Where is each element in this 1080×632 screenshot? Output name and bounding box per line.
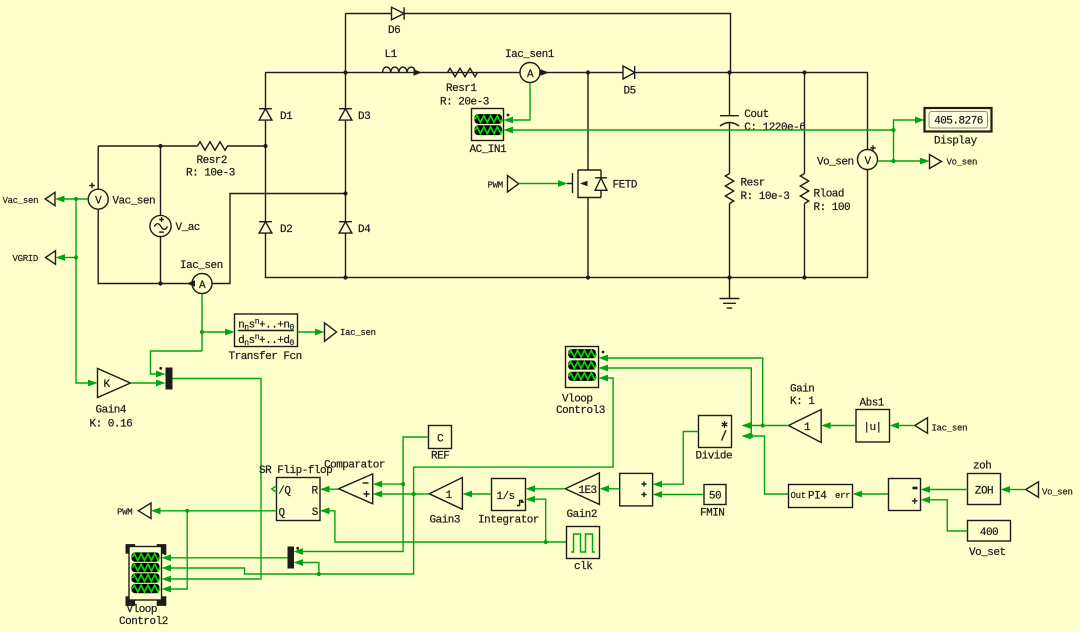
transfer function block Transfer Fcn — [229, 314, 302, 363]
svg-text:1E3: 1E3 — [578, 485, 596, 497]
node PWM tap — [185, 509, 189, 513]
diode D6 — [388, 7, 404, 37]
svg-text:V_ac: V_ac — [176, 222, 200, 234]
svg-text:R: 100: R: 100 — [814, 202, 851, 214]
svg-text:PI4: PI4 — [808, 490, 827, 502]
node dots Vo net — [891, 128, 895, 163]
wire green Vo branch to display — [894, 120, 916, 130]
wire green Gain4 to mux — [131, 382, 157, 384]
diode D4 — [339, 222, 371, 236]
ground — [720, 278, 740, 309]
svg-text:V: V — [95, 196, 102, 208]
svg-text:Iac_sen: Iac_sen — [340, 328, 376, 338]
wire green comparator out to R — [330, 488, 339, 490]
multiplexer bar mux1 — [159, 367, 172, 390]
integrator block 1/s — [478, 479, 539, 527]
gain Gain3 — [429, 478, 462, 527]
subtract block — [889, 479, 921, 511]
clock block clk — [567, 527, 600, 573]
svg-text:|u|: |u| — [863, 422, 881, 434]
wire green voltmeter Vo_sen to port — [878, 160, 921, 162]
node Gain out tap — [761, 423, 765, 427]
svg-text:Gain2: Gain2 — [567, 509, 598, 521]
diode D3 — [339, 109, 370, 123]
wire green tap to scope3 input2 — [608, 368, 751, 436]
wire green Abs1 to Gain — [831, 425, 856, 427]
svg-text:Control3: Control3 — [556, 405, 605, 417]
inductor L1 — [383, 49, 416, 73]
voltmeter Vo_sen — [817, 145, 878, 169]
node REF tap — [401, 482, 405, 486]
diode D1 — [259, 109, 293, 123]
svg-text:V: V — [864, 156, 871, 168]
svg-text:1/s: 1/s — [496, 491, 514, 503]
wire green Gain3 net to scope3 input3 — [414, 378, 613, 494]
svg-text:FETD: FETD — [613, 180, 638, 192]
port VGRID — [13, 251, 56, 265]
wire green Transfer Fcn output — [298, 331, 316, 333]
svg-text:Iac_sen1: Iac_sen1 — [505, 49, 555, 61]
wire green to Transfer Fcn — [202, 331, 225, 333]
wire green mux2 output to scope2 input1 — [171, 557, 288, 559]
svg-text:D6: D6 — [388, 25, 400, 37]
wire green voltmeter Vac_sen to port — [65, 198, 89, 200]
svg-text:L1: L1 — [385, 49, 398, 61]
svg-text:AC_IN1: AC_IN1 — [470, 144, 508, 156]
svg-text:Vo_sen: Vo_sen — [1042, 487, 1073, 497]
wire green clk to integrator reset — [535, 499, 546, 542]
svg-text:Display: Display — [934, 136, 978, 148]
node clk net — [544, 540, 548, 544]
wire green PWM to scope input4 — [171, 511, 187, 589]
svg-text:Cout: Cout — [744, 109, 768, 121]
wire green Iac_sen1 to scope — [513, 83, 530, 121]
svg-text:Gain3: Gain3 — [430, 514, 461, 526]
transistor FETD mosfet — [567, 170, 638, 199]
junction dots power — [158, 70, 806, 285]
svg-text:A: A — [199, 280, 206, 292]
resistor Resr2 R: 10e-3 — [186, 142, 235, 180]
svg-text:400: 400 — [980, 527, 998, 539]
diode D5 — [623, 66, 636, 97]
wire green Gain3 out to comparator plus — [382, 493, 429, 495]
svg-text:R: 10e-3: R: 10e-3 — [741, 191, 790, 203]
svg-text:K: 0.16: K: 0.16 — [90, 418, 133, 430]
svg-text:Vac_sen: Vac_sen — [3, 196, 39, 206]
port PWM output — [488, 176, 519, 193]
wire bridge leg2 — [345, 14, 347, 278]
wire green Integrator out to Gain3 — [472, 493, 492, 495]
wire green REF tap to comparator minus — [382, 483, 403, 485]
svg-text:Comparator: Comparator — [324, 460, 385, 472]
svg-text:K: K — [103, 379, 110, 391]
wire green Vo to scope AC_IN1 — [513, 129, 894, 131]
wire green Divide out to summer input1 — [662, 432, 699, 485]
wire green FMIN to summer input2 — [662, 494, 704, 496]
wire green PI out to Divide denominator — [751, 436, 789, 494]
svg-text:Iac_sen: Iac_sen — [932, 423, 968, 433]
svg-text:405.8276: 405.8276 — [934, 116, 983, 128]
meter Display 405.8276 — [925, 108, 992, 148]
svg-text:D2: D2 — [280, 224, 292, 236]
wire green ammeter Iac_sen down — [201, 294, 203, 352]
svg-text:D5: D5 — [624, 85, 636, 97]
svg-text:50: 50 — [709, 491, 721, 503]
svg-text:C: 1220e-6: C: 1220e-6 — [744, 122, 805, 134]
svg-text:FMIN: FMIN — [700, 507, 724, 519]
node A Iac_sen tap — [200, 330, 204, 334]
diode D2 — [259, 222, 292, 236]
node Gain3 net — [412, 492, 416, 496]
wire Cout-Resr column — [729, 73, 731, 278]
wire green Vo vertical link — [893, 130, 895, 161]
svg-text:Control2: Control2 — [119, 616, 168, 628]
wire V_ac column — [160, 146, 162, 284]
svg-text:K: 1: K: 1 — [790, 396, 815, 408]
svg-text:Gain: Gain — [790, 384, 814, 396]
wire green Vo_set to subtract plus — [930, 500, 968, 531]
wire green sense bus vertical — [76, 199, 88, 383]
svg-text:/Q: /Q — [278, 485, 291, 497]
gain Gain4 K: 0.16 — [90, 369, 133, 431]
ammeter Iac_sen1 — [505, 49, 555, 83]
svg-text:D3: D3 — [358, 111, 370, 123]
svg-text:R: 10e-3: R: 10e-3 — [186, 168, 235, 180]
scope Vloop Control2 selected — [119, 544, 168, 628]
wire green REF to mux2 upper input — [303, 437, 429, 552]
wire green Gain out to Divide numerator — [751, 425, 789, 427]
source V_ac — [150, 215, 200, 236]
gain Gain2 1E3 — [565, 473, 599, 521]
wire green Gain3 net down to mux2 and scope2 — [171, 494, 414, 574]
wire green branch to mux2 lower input — [303, 563, 319, 575]
svg-text:Resr2: Resr2 — [197, 155, 228, 167]
wire green mux1 output to scope input3 — [171, 379, 261, 580]
gain Gain K: 1 — [789, 384, 822, 443]
svg-text:Resr: Resr — [741, 178, 765, 190]
arrow on wire right of ammeter Iac_sen1 — [541, 69, 550, 75]
multiplexer bar mux2 — [288, 547, 300, 569]
svg-text:S: S — [312, 507, 319, 519]
node mux2 branch — [317, 572, 321, 576]
scope AC_IN1 — [470, 109, 510, 157]
wire green Gain2 to Integrator — [535, 488, 565, 490]
summer block — [620, 473, 653, 506]
wire green tap to scope3 input1 — [608, 358, 763, 426]
svg-text:clk: clk — [574, 561, 593, 573]
svg-text:PWM: PWM — [117, 507, 132, 517]
arrow on wire after L1 — [414, 69, 423, 75]
wire green Q to PWM port — [161, 510, 277, 512]
node dots sense bus — [74, 197, 78, 260]
wire green summer to Gain2 — [609, 488, 620, 490]
wire green port to ZOH — [1010, 489, 1026, 491]
svg-text:Transfer Fcn: Transfer Fcn — [229, 351, 302, 363]
svg-text:Abs1: Abs1 — [860, 397, 885, 409]
svg-text:Rload: Rload — [814, 189, 845, 201]
wire green port to Abs1 — [899, 425, 915, 427]
svg-text:R: R — [312, 485, 319, 497]
svg-text:C: C — [437, 433, 444, 445]
wire top bypass D6 branch — [346, 14, 731, 73]
wire main dc loop rectangle — [266, 73, 868, 278]
svg-text:Vo_set: Vo_set — [969, 547, 1006, 559]
resistor Resr1 R: 20e-3 — [440, 68, 489, 108]
capacitor Cout C: 1220e-6 — [720, 109, 805, 134]
block Vo_set 400 — [968, 521, 1011, 559]
wire green ZOH to subtract minus — [930, 489, 968, 491]
arrow on wire left of ammeter Iac_sen — [187, 280, 196, 286]
wire ac ammeter to bridge — [212, 194, 346, 284]
svg-text:D4: D4 — [358, 224, 371, 236]
svg-text:Out: Out — [791, 491, 806, 501]
svg-text:Vloop: Vloop — [562, 393, 593, 405]
wire Rload column — [804, 73, 806, 278]
svg-text:err: err — [835, 491, 850, 501]
zoh block ZOH — [968, 460, 1001, 504]
svg-text:zoh: zoh — [973, 460, 991, 472]
svg-text:Integrator: Integrator — [478, 514, 539, 526]
port Vac_sen — [3, 192, 56, 206]
svg-text:Q: Q — [279, 507, 286, 519]
svg-text:Vloop: Vloop — [127, 604, 158, 616]
svg-text:Vac_sen: Vac_sen — [112, 196, 155, 208]
divide block Divide — [696, 416, 733, 463]
svg-text:Vo_sen: Vo_sen — [947, 157, 978, 167]
resistor Rload R: 100 — [800, 174, 850, 215]
pi block Out PI4 err — [789, 485, 853, 508]
port Vo_sen input — [1026, 482, 1073, 498]
svg-text:Vo_sen: Vo_sen — [817, 157, 854, 169]
svg-text:R: 20e-3: R: 20e-3 — [440, 97, 489, 109]
svg-text:PWM: PWM — [488, 180, 503, 190]
comparator Comparator — [324, 460, 385, 504]
svg-text:ZOH: ZOH — [975, 485, 993, 497]
wire green to mux upper input — [151, 351, 203, 374]
node PI out tap — [749, 434, 753, 438]
svg-text:VGRID: VGRID — [13, 254, 39, 264]
svg-text:Gain4: Gain4 — [96, 404, 127, 416]
ammeter Iac_sen — [180, 260, 223, 294]
svg-text:Divide: Divide — [696, 451, 733, 463]
port PWM input — [117, 503, 151, 519]
wire green PWM to FET gate — [519, 183, 558, 185]
svg-text:A: A — [527, 69, 534, 81]
svg-text:SR Flip-flop: SR Flip-flop — [259, 465, 332, 477]
flip-flop SR Flip-flop — [259, 465, 332, 521]
block FMIN 50 — [700, 485, 726, 520]
port Iac_sen output — [325, 323, 376, 342]
port Vo_sen output — [930, 155, 978, 169]
wire green clk to S input — [330, 511, 567, 542]
svg-text:D1: D1 — [280, 111, 293, 123]
scope Vloop Control3 — [556, 347, 605, 417]
abs block Abs1 — [856, 397, 890, 442]
block REF constant C — [429, 426, 452, 463]
port Iac_sen input — [915, 418, 968, 434]
svg-text:Iac_sen: Iac_sen — [180, 260, 223, 272]
svg-text:1: 1 — [804, 422, 811, 434]
svg-text:REF: REF — [431, 451, 449, 463]
svg-text:Resr1: Resr1 — [446, 83, 477, 95]
voltmeter Vac_sen — [88, 183, 155, 209]
wire green to VGRID — [65, 257, 76, 259]
resistor Resr R: 10e-3 — [725, 174, 789, 204]
wire left source loop — [98, 146, 265, 284]
wire green subtract to PI err — [862, 493, 889, 495]
wire FET drain and source column — [587, 73, 589, 278]
svg-text:1: 1 — [445, 490, 452, 502]
